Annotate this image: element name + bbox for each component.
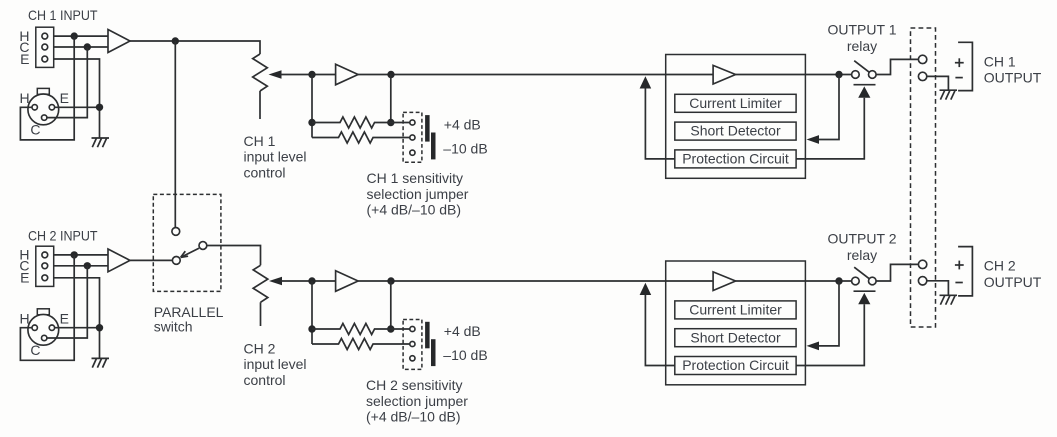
CH2 sensitivity jumper block dashed: [403, 320, 422, 370]
CH1 output terminal -: [918, 72, 926, 80]
CH2 XLR connector shell tab: [37, 309, 49, 315]
svg-text:CH 1: CH 1: [244, 133, 276, 149]
node H1: [71, 32, 78, 39]
relay contact left CH1: [852, 71, 860, 79]
wire XLR H routed to node H2: [20, 255, 74, 360]
relay contact right CH1: [869, 71, 877, 79]
CH1 jumper pin 1: [410, 120, 415, 125]
relay arm CH2: [854, 267, 869, 279]
resistor R3 gain +4dB CH2: [312, 324, 410, 335]
CH2 jumper shunt bar +4dB: [425, 322, 430, 349]
wire protection to input mute CH1: [645, 89, 674, 159]
arrow up to relay CH1: [858, 86, 870, 97]
wire parallel tap down to switch: [174, 41, 176, 228]
arrow into short detector CH2: [807, 342, 820, 351]
arrow up to relay CH2: [858, 293, 870, 304]
wire H terminal to buffer CH2: [54, 254, 108, 256]
potentiometer CH1 input level control: [253, 54, 268, 91]
node sens in CH1: [308, 71, 315, 78]
wire CH1 minus terminal to ground: [927, 76, 949, 90]
wire E terminal to ground: [54, 59, 100, 138]
wire C terminal to buffer CH2: [54, 265, 108, 267]
CH1 XLR pin E: [49, 105, 54, 110]
CH2 terminal pin E: [42, 275, 48, 281]
CH2 XLR connector shell tab notch: [40, 315, 48, 318]
wire C terminal to buffer: [54, 46, 108, 48]
op-amp power amp CH2: [713, 272, 736, 291]
Current Limiter box CH2: [675, 301, 796, 319]
node E2: [96, 324, 103, 331]
Protection Circuit box CH2: [675, 357, 796, 375]
wire XLR H routed to node H1: [20, 36, 74, 140]
CH2 output terminal +: [918, 260, 926, 268]
node C1: [84, 43, 91, 50]
wire protection to relay coil CH1: [796, 98, 864, 159]
wire sens amp out to power block CH2: [358, 280, 713, 282]
ground CH2 input: [92, 358, 110, 367]
CH2 jumper pin 2: [410, 341, 415, 346]
plus sign CH2: [955, 261, 964, 270]
svg-text:H: H: [20, 90, 30, 106]
wire node sens out down to resistor: [390, 75, 392, 123]
node R1 left: [308, 119, 315, 126]
CH1 XLR connector body: [28, 94, 59, 125]
wire XLR C routed to node C2: [47, 266, 87, 338]
pot CH1 bottom lead: [259, 91, 261, 119]
svg-text:relay: relay: [847, 38, 877, 54]
op-amp input buffer CH2: [108, 249, 130, 272]
CH1 terminal pin E: [42, 56, 48, 62]
wire XLR C routed to node C1: [47, 47, 87, 118]
CH1 sensitivity jumper block dashed: [403, 112, 422, 162]
svg-text:Current Limiter: Current Limiter: [689, 302, 782, 318]
ground CH2 output: [940, 295, 958, 304]
svg-text:Current Limiter: Current Limiter: [689, 95, 782, 111]
Current Limiter box CH1: [675, 94, 796, 112]
svg-text:Protection Circuit: Protection Circuit: [682, 357, 789, 373]
svg-text:C: C: [30, 122, 40, 138]
CH1 jumper pin 3: [410, 150, 415, 155]
Protection Circuit box CH1: [675, 150, 796, 168]
svg-text:switch: switch: [154, 319, 193, 335]
CH1 jumper pin 2: [410, 135, 415, 140]
relay contact right CH2: [869, 277, 877, 285]
arrow up into signal line CH1: [640, 76, 652, 88]
ground CH1 output: [940, 90, 958, 99]
speaker bracket CH1: [958, 42, 972, 90]
svg-text:OUTPUT 1: OUTPUT 1: [828, 22, 897, 38]
wire XLR E to ground line: [55, 106, 100, 108]
pot CH1 wiper arrow: [269, 70, 282, 78]
arrow into short detector CH1: [807, 135, 820, 144]
svg-text:CH 2: CH 2: [984, 258, 1016, 274]
resistor R2 gain -10dB CH1: [312, 132, 410, 143]
wire node sens out down to resistor CH2: [390, 281, 392, 329]
op-amp power amp CH1: [713, 65, 736, 84]
wire short detector feedback CH1: [819, 75, 840, 140]
svg-text:E: E: [60, 310, 69, 326]
switch arm with arrow: [181, 248, 199, 257]
node sens in CH2: [308, 277, 315, 284]
wire short detector feedback CH2: [819, 281, 840, 346]
wire node sens in down to resistors CH2: [311, 281, 313, 344]
svg-text:(+4 dB/–10 dB): (+4 dB/–10 dB): [366, 409, 461, 425]
node sens out CH2: [387, 277, 394, 284]
CH1 XLR pin H: [32, 105, 37, 110]
svg-text:E: E: [20, 51, 29, 67]
wire sens amp out to power block CH1: [358, 74, 713, 76]
svg-text:E: E: [20, 270, 29, 286]
resistor R4 gain -10dB CH2: [312, 339, 410, 350]
svg-text:input level: input level: [244, 356, 307, 372]
output terminal strip dashed: [911, 28, 936, 327]
svg-text:control: control: [244, 164, 286, 180]
speaker bracket CH2: [958, 247, 972, 296]
wire power amp out to relay CH2: [736, 280, 852, 282]
CH2 XLR connector body: [28, 314, 59, 345]
node C2: [84, 262, 91, 269]
CH1 terminal pin H: [42, 33, 48, 39]
switch contact stereo (left): [172, 257, 180, 265]
svg-text:control: control: [244, 372, 286, 388]
relay contact left CH2: [852, 277, 860, 285]
svg-text:Protection Circuit: Protection Circuit: [682, 151, 789, 167]
wire node sens in down to resistors: [311, 75, 313, 138]
CH2 XLR pin H: [32, 325, 37, 330]
CH2 input terminal block J2: [36, 246, 54, 286]
CH2 terminal pin H: [42, 252, 48, 258]
wire relay to output terminal CH2: [876, 264, 918, 281]
svg-text:–10 dB: –10 dB: [443, 347, 487, 363]
CH1 output terminal +: [918, 55, 926, 63]
node E1: [96, 104, 103, 111]
svg-text:+4 dB: +4 dB: [444, 116, 481, 132]
node R3 right: [387, 325, 394, 332]
wire E terminal to ground CH2: [54, 278, 100, 359]
svg-text:–10 dB: –10 dB: [443, 140, 487, 156]
op-amp sensitivity stage CH1: [336, 64, 359, 85]
svg-text:C: C: [30, 342, 40, 358]
wire CH2 minus terminal to ground: [927, 281, 949, 296]
wire wiper to sens amp CH2: [281, 280, 336, 282]
svg-text:CH 1: CH 1: [984, 54, 1016, 70]
wire wiper to sens amp: [280, 74, 336, 76]
CH1 XLR connector shell tab: [37, 88, 49, 94]
relay actuate bar CH1: [854, 84, 876, 86]
switch contact parallel (top): [172, 228, 180, 236]
svg-text:OUTPUT: OUTPUT: [984, 274, 1042, 290]
node sens out CH1: [387, 71, 394, 78]
node H2: [71, 251, 78, 258]
CH1 terminal pin C: [42, 44, 48, 50]
svg-text:E: E: [60, 90, 69, 106]
power amplifier block CH1: [666, 55, 806, 179]
CH2 jumper shunt bar -10dB: [431, 339, 436, 366]
CH1 input terminal block J1: [36, 27, 54, 67]
CH2 output terminal -: [918, 277, 926, 285]
Short Detector box CH1: [675, 122, 796, 140]
wire protection to input mute CH2: [645, 295, 674, 366]
svg-text:H: H: [20, 310, 30, 326]
svg-text:selection jumper: selection jumper: [366, 393, 468, 409]
ground CH1 input: [92, 138, 110, 147]
node R1 right: [387, 119, 394, 126]
svg-text:Short Detector: Short Detector: [690, 123, 781, 139]
CH1 XLR connector shell tab notch: [40, 94, 48, 97]
svg-text:(+4 dB/–10 dB): (+4 dB/–10 dB): [367, 202, 462, 218]
pot CH2 wiper arrow: [269, 277, 282, 285]
minus sign CH2: [955, 282, 962, 284]
arrow up into signal line CH2: [640, 283, 652, 295]
wire CH2 buffer to switch: [130, 259, 172, 261]
wire relay to output terminal CH1: [876, 59, 918, 74]
wire protection to relay coil CH2: [796, 304, 864, 365]
svg-text:CH 2 sensitivity: CH 2 sensitivity: [366, 377, 462, 393]
svg-text:CH 1 sensitivity: CH 1 sensitivity: [367, 170, 463, 186]
power amplifier block CH2: [666, 261, 806, 385]
svg-text:Short Detector: Short Detector: [690, 329, 781, 345]
pot CH2 bottom lead: [260, 302, 262, 326]
potentiometer CH2 input level control: [253, 265, 268, 302]
CH2 XLR pin E: [49, 325, 54, 330]
svg-text:input level: input level: [244, 149, 307, 165]
wire switch pole to CH2 pot: [207, 246, 261, 266]
node relay in CH1: [835, 71, 842, 78]
resistor R1 gain +4dB CH1: [312, 117, 410, 128]
op-amp input buffer CH1: [108, 30, 130, 53]
switch pole (right): [199, 242, 207, 250]
CH1 jumper shunt bar +4dB: [425, 115, 430, 142]
svg-text:selection jumper: selection jumper: [367, 186, 469, 202]
node relay in CH2: [835, 277, 842, 284]
CH1 XLR pin C: [42, 115, 47, 120]
wire buffer output to CH1 level pot: [130, 41, 260, 54]
CH2 terminal pin C: [42, 263, 48, 269]
svg-text:PARALLEL: PARALLEL: [154, 304, 224, 320]
node parallel tap: [172, 37, 179, 44]
svg-text:OUTPUT: OUTPUT: [984, 69, 1042, 85]
node R3 left: [308, 325, 315, 332]
parallel switch block dashed: [153, 194, 221, 291]
wire power amp out to relay CH1: [736, 74, 852, 76]
op-amp sensitivity stage CH2: [336, 271, 359, 292]
svg-text:CH 1 INPUT: CH 1 INPUT: [28, 7, 98, 23]
CH2 jumper pin 1: [410, 326, 415, 331]
svg-text:+4 dB: +4 dB: [444, 323, 481, 339]
CH2 XLR pin C: [42, 335, 47, 340]
minus sign CH1: [955, 77, 962, 79]
plus sign CH1: [955, 58, 964, 67]
relay actuate bar CH2: [854, 290, 876, 292]
svg-text:OUTPUT 2: OUTPUT 2: [828, 230, 897, 246]
Short Detector box CH2: [675, 329, 796, 347]
CH2 jumper pin 3: [410, 356, 415, 361]
CH1 jumper shunt bar -10dB: [431, 133, 436, 160]
svg-text:relay: relay: [847, 247, 877, 263]
relay arm CH1: [854, 61, 869, 72]
svg-text:CH 2 INPUT: CH 2 INPUT: [28, 227, 98, 243]
wire XLR E to ground line CH2: [55, 327, 100, 329]
svg-text:CH 2: CH 2: [244, 341, 276, 357]
wire H terminal to buffer: [54, 35, 108, 37]
